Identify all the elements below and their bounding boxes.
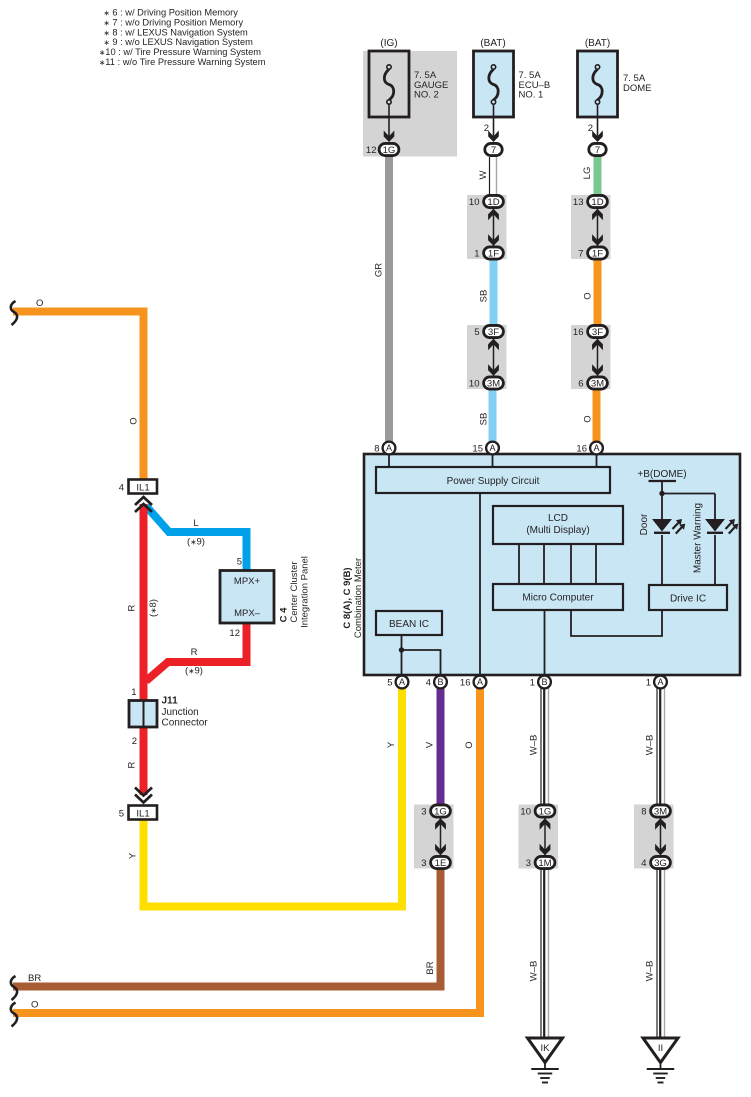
connector pair 10 1D / 1 1F	[493, 209, 495, 247]
svg-text:SB: SB	[478, 290, 489, 303]
svg-text:4: 4	[641, 858, 646, 869]
svg-text:IK: IK	[541, 1043, 551, 1054]
break squiggle (BR)	[11, 976, 17, 1000]
gray box connector 1G/1M	[519, 805, 559, 869]
node junction dot	[659, 491, 664, 496]
svg-text:(IG): (IG)	[380, 38, 397, 49]
svg-text:Drive IC: Drive IC	[670, 594, 706, 605]
micro computer box	[493, 584, 623, 610]
svg-text:IL1: IL1	[136, 483, 149, 494]
terminal 15 (A) top	[486, 442, 499, 455]
wire: stubs from top terminals to power supply circuit	[388, 448, 390, 467]
svg-text:Combination Meter: Combination Meter	[353, 558, 364, 638]
svg-text:1: 1	[530, 677, 535, 688]
connector pair 8 3M / 4 3G	[660, 818, 662, 856]
svg-text:10: 10	[469, 378, 480, 389]
svg-text:∗ 9 : w/o LEXUS Navigation Sys: ∗ 9 : w/o LEXUS Navigation System	[104, 37, 254, 47]
svg-text:3F: 3F	[592, 327, 603, 338]
wire W from fuse ECU-B to 1D	[489, 157, 491, 197]
svg-text:O: O	[582, 415, 593, 422]
svg-text:5: 5	[237, 557, 242, 568]
svg-text:7: 7	[491, 145, 496, 156]
wire: micro computer to terminal 1(B)	[544, 610, 546, 676]
svg-text:A: A	[399, 677, 405, 687]
svg-text:1: 1	[474, 248, 479, 259]
svg-text:(∗9): (∗9)	[185, 666, 203, 677]
power supply circuit box	[376, 467, 610, 493]
svg-text:Door: Door	[639, 513, 650, 535]
svg-text:W–B: W–B	[644, 735, 655, 756]
wire GR from fuse GAUGE to 8(A)	[385, 157, 393, 445]
connector pair 16 3F / 6 3M	[597, 339, 599, 377]
svg-text:∗11 : w/o Tire Pressure Warnin: ∗11 : w/o Tire Pressure Warning System	[99, 57, 266, 67]
svg-text:II: II	[658, 1043, 663, 1054]
ground II	[643, 1038, 678, 1063]
svg-text:∗ 6 : w/ Driving Position Memo: ∗ 6 : w/ Driving Position Memory	[104, 8, 239, 18]
combination meter C8(A) C9(B) box	[364, 454, 740, 675]
svg-text:1: 1	[131, 687, 136, 698]
connector 7 (dome)	[589, 143, 606, 155]
svg-text:4: 4	[426, 677, 431, 688]
terminal 16 (A) top	[590, 442, 603, 455]
wire R from J11 pin 2 to IL1 pin 5	[140, 726, 148, 795]
terminal 5 (A) bottom	[396, 676, 409, 689]
svg-text:NO. 2: NO. 2	[414, 90, 439, 101]
wire: to master warning LED	[662, 493, 715, 495]
connector pair 3 1G / 3 1E	[440, 818, 442, 856]
wire: door LED branch	[661, 494, 663, 520]
terminal 8 (A) top	[383, 442, 396, 455]
svg-text:1G: 1G	[434, 806, 447, 817]
wire V from terminal 4(B) to 1G	[437, 682, 445, 806]
svg-text:1F: 1F	[592, 248, 603, 259]
wire: power supply circuit to terminal 16(A) bottom	[479, 493, 481, 676]
wire SB 1F to 3F	[490, 258, 498, 327]
svg-text:O: O	[36, 298, 43, 309]
svg-text:5: 5	[474, 327, 479, 338]
svg-text:MPX–: MPX–	[234, 608, 261, 619]
svg-text:L: L	[193, 518, 198, 529]
svg-text:5: 5	[119, 809, 124, 820]
svg-text:O: O	[31, 1000, 38, 1011]
terminal 1 (A) bottom	[654, 676, 667, 689]
svg-text:Master Warning: Master Warning	[693, 503, 704, 573]
gray box connector 3F/3M (DOME col)	[571, 325, 611, 389]
gray box connector 1G/1E	[414, 805, 454, 869]
svg-text:B: B	[437, 677, 443, 687]
break squiggle (O top)	[11, 301, 17, 325]
svg-text:(BAT): (BAT)	[585, 38, 610, 49]
wire W-B 1M to ground IK	[540, 867, 542, 1039]
terminal 1 (B) bottom	[538, 676, 551, 689]
svg-text:1F: 1F	[488, 248, 499, 259]
svg-text:C 8(A), C 9(B): C 8(A), C 9(B)	[342, 567, 353, 628]
connector 7 (ecu-b)	[485, 143, 502, 155]
svg-text:Power Supply Circuit: Power Supply Circuit	[447, 476, 540, 487]
gray box connector 3M/3G	[634, 805, 674, 869]
wire BR from 1E to left edge	[13, 867, 441, 987]
svg-text:(BAT): (BAT)	[480, 38, 505, 49]
svg-text:NO. 1: NO. 1	[519, 90, 544, 101]
svg-text:3F: 3F	[488, 327, 499, 338]
wire O 1F to 3F (dome col)	[594, 258, 602, 327]
wire O 3M to 16(A) (dome col)	[593, 387, 601, 444]
wire LG from fuse DOME to 1D	[594, 157, 602, 197]
svg-text:7: 7	[595, 145, 600, 156]
wire Y from IL1 to terminal 5(A)	[144, 680, 403, 907]
svg-text:W–B: W–B	[528, 735, 539, 756]
BEAN IC box	[376, 611, 442, 635]
wire: micro computer to drive IC (U shape)	[571, 610, 662, 636]
drive IC box	[649, 585, 727, 610]
svg-text:Y: Y	[127, 852, 138, 859]
connector pair 10 1G / 3 1M	[544, 818, 546, 856]
svg-text:DOME: DOME	[623, 83, 652, 94]
connector IL1 pin 5	[129, 806, 158, 820]
gray box connector 1D/1F (ECU-B col)	[467, 195, 507, 259]
svg-text:2: 2	[132, 736, 137, 747]
svg-text:∗ 8 : w/ LEXUS Navigation Syst: ∗ 8 : w/ LEXUS Navigation System	[104, 27, 249, 37]
svg-text:BR: BR	[425, 961, 436, 974]
svg-text:A: A	[477, 677, 483, 687]
svg-text:SB: SB	[478, 413, 489, 426]
svg-text:A: A	[593, 443, 599, 453]
svg-text:4: 4	[119, 483, 124, 494]
gray box connector 1D/1F (DOME col)	[571, 195, 611, 259]
wire L to C4 MPX+	[146, 506, 247, 571]
svg-text:16: 16	[460, 677, 471, 688]
svg-text:12: 12	[229, 628, 240, 639]
svg-text:A: A	[386, 443, 392, 453]
svg-text:15: 15	[472, 443, 483, 454]
LCD (Multi Display) box	[493, 506, 623, 544]
svg-text:1D: 1D	[591, 197, 603, 208]
svg-text:∗ 7 : w/o Driving Position Mem: ∗ 7 : w/o Driving Position Memory	[104, 17, 244, 27]
wires: LCD to micro computer (4 lines)	[518, 544, 520, 584]
svg-text:MPX+: MPX+	[234, 576, 261, 587]
svg-text:O: O	[128, 417, 139, 424]
wire W-B terminal 1(B) to 1G	[540, 687, 542, 806]
svg-text:LG: LG	[582, 167, 593, 180]
svg-text:W–B: W–B	[528, 961, 539, 982]
svg-text:Micro Computer: Micro Computer	[522, 593, 594, 604]
svg-text:7: 7	[578, 248, 583, 259]
svg-text:6: 6	[578, 378, 583, 389]
svg-text:+B(DOME): +B(DOME)	[637, 469, 686, 480]
svg-text:Connector: Connector	[162, 718, 209, 729]
svg-text:A: A	[489, 443, 495, 453]
C4 center cluster integration panel	[220, 571, 274, 624]
svg-text:J11: J11	[162, 696, 179, 707]
svg-text:R: R	[126, 761, 137, 768]
svg-text:3G: 3G	[654, 858, 667, 869]
svg-text:O: O	[582, 292, 593, 299]
svg-text:∗10 : w/ Tire Pressure Warning: ∗10 : w/ Tire Pressure Warning System	[99, 47, 261, 57]
svg-text:12: 12	[366, 145, 377, 156]
svg-text:3: 3	[421, 806, 426, 817]
svg-text:3M: 3M	[487, 378, 500, 389]
wire W-B terminal 1(A) to 3M	[656, 687, 658, 806]
svg-text:BEAN IC: BEAN IC	[389, 619, 429, 630]
svg-text:8: 8	[374, 443, 379, 454]
svg-text:1: 1	[646, 677, 651, 688]
svg-text:O: O	[464, 741, 475, 748]
svg-text:1M: 1M	[538, 858, 551, 869]
wire W-B 3G to ground II	[656, 867, 658, 1039]
svg-text:A: A	[657, 677, 663, 687]
svg-text:GR: GR	[373, 263, 384, 277]
svg-text:1G: 1G	[383, 145, 396, 156]
wire O from terminal 16(A) to left edge	[13, 682, 480, 1013]
svg-text:3: 3	[526, 858, 531, 869]
svg-text:16: 16	[576, 443, 587, 454]
svg-text:Junction: Junction	[162, 707, 199, 718]
wire R from IL1 to J11 pin 1	[140, 504, 148, 702]
svg-text:B: B	[541, 677, 547, 687]
svg-text:Integration Panel: Integration Panel	[299, 556, 310, 628]
svg-text:R: R	[126, 604, 137, 611]
svg-text:1D: 1D	[487, 197, 499, 208]
connector pair 13 1D / 7 1F	[597, 209, 599, 247]
gray box connector 3F/3M (ECU-B col)	[467, 325, 507, 389]
terminal 16 (A) bottom	[474, 676, 487, 689]
break squiggle (O bottom)	[11, 1003, 17, 1027]
wire: BEAN IC to terminals 5(A) and 4(B)	[401, 635, 403, 676]
svg-text:(Multi Display): (Multi Display)	[526, 525, 589, 536]
svg-text:5: 5	[387, 677, 392, 688]
svg-text:C 4: C 4	[278, 607, 289, 623]
svg-text:(∗9): (∗9)	[187, 537, 205, 548]
terminal 4 (B) bottom	[434, 676, 447, 689]
chevron arrows up at IL1	[135, 497, 152, 505]
svg-text:R: R	[191, 647, 198, 658]
svg-text:3M: 3M	[591, 378, 604, 389]
svg-text:LCD: LCD	[548, 513, 568, 524]
svg-text:1G: 1G	[539, 806, 552, 817]
gray background behind GAUGE fuse	[363, 51, 457, 157]
wire SB 3M to 15(A)	[489, 387, 497, 444]
svg-text:16: 16	[573, 327, 584, 338]
ground IK	[528, 1038, 563, 1063]
connector pair 5 3F / 10 3M	[493, 339, 495, 377]
svg-text:(∗8): (∗8)	[148, 599, 159, 617]
svg-text:BR: BR	[28, 973, 41, 984]
svg-text:13: 13	[573, 197, 584, 208]
svg-text:3M: 3M	[654, 806, 667, 817]
LED master warning	[705, 519, 725, 532]
svg-text:IL1: IL1	[136, 809, 149, 820]
svg-text:W: W	[478, 170, 489, 179]
svg-text:Center Cluster: Center Cluster	[289, 561, 300, 622]
svg-text:V: V	[424, 741, 435, 748]
svg-text:3: 3	[421, 858, 426, 869]
svg-text:8: 8	[641, 806, 646, 817]
wire O from left edge to IL1 pin 4	[13, 312, 144, 481]
svg-text:W–B: W–B	[644, 961, 655, 982]
chevron arrows down above IL1 pin 5	[135, 795, 152, 803]
LED door	[652, 519, 672, 532]
svg-text:10: 10	[469, 197, 480, 208]
svg-text:10: 10	[520, 806, 531, 817]
junction connector J11	[129, 701, 157, 728]
svg-text:1E: 1E	[435, 858, 447, 869]
connector 1G (gauge)	[379, 143, 399, 155]
connector IL1 pin 4	[129, 480, 158, 494]
wire R from C4 MPX- rejoining main R	[146, 622, 247, 681]
svg-text:Y: Y	[386, 741, 397, 748]
